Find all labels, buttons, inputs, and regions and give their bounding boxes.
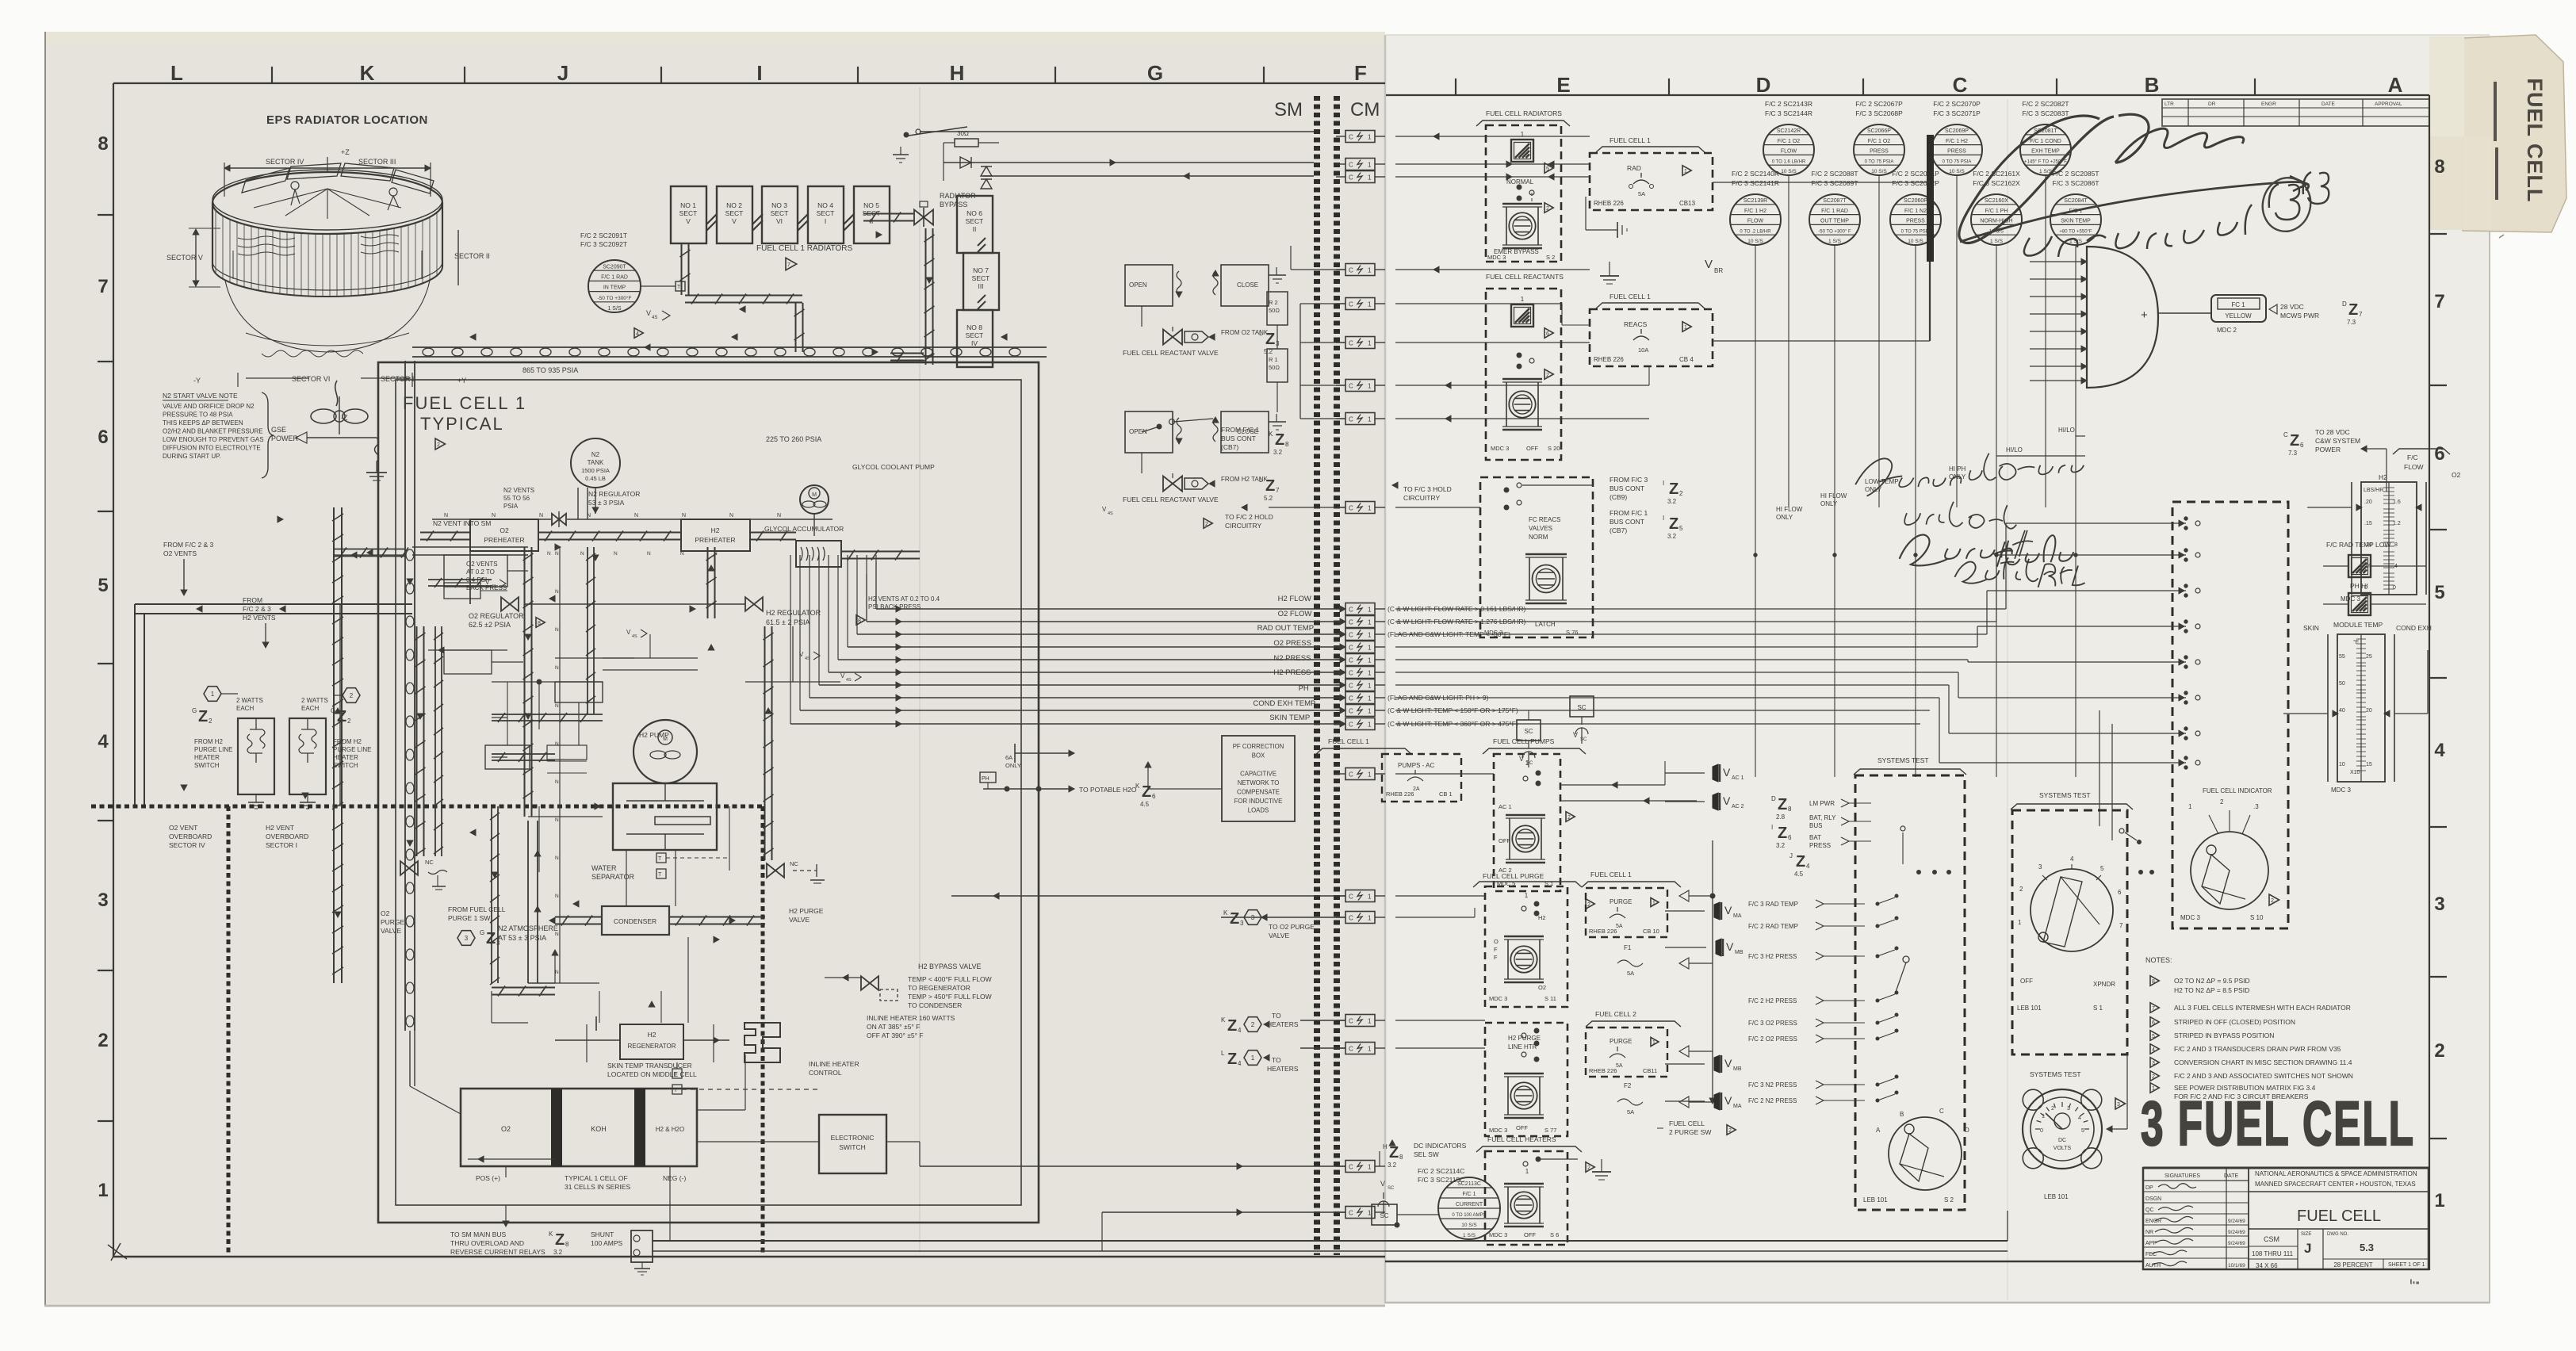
- svg-text:F/C: F/C: [2407, 454, 2418, 461]
- svg-text:(CB7): (CB7): [1221, 443, 1238, 451]
- svg-text:YELLOW: YELLOW: [2225, 312, 2252, 320]
- svg-text:OVERBOARD: OVERBOARD: [169, 832, 212, 840]
- svg-text:PF CORRECTION: PF CORRECTION: [1233, 743, 1284, 750]
- svg-text:+Z: +Z: [341, 148, 350, 156]
- svg-text:+Y: +Y: [457, 377, 466, 385]
- svg-text:R 2: R 2: [1269, 299, 1278, 306]
- svg-text:REACS: REACS: [1624, 320, 1648, 328]
- svg-text:N: N: [547, 551, 551, 557]
- svg-text:N2 VENTS: N2 VENTS: [503, 487, 534, 494]
- svg-text:TEMP < 400°F FULL FLOW: TEMP < 400°F FULL FLOW: [908, 975, 992, 983]
- svg-text:F/C RAD TEMP LOW: F/C RAD TEMP LOW: [2326, 541, 2390, 549]
- svg-text:C: C: [1349, 383, 1353, 390]
- svg-text:N: N: [555, 627, 559, 633]
- svg-text:N: N: [555, 817, 559, 823]
- svg-text:2: 2: [1587, 902, 1590, 908]
- svg-text:NO 3: NO 3: [771, 201, 787, 209]
- svg-text:F/C 1 N2: F/C 1 N2: [1904, 209, 1927, 214]
- svg-text:10/1/69: 10/1/69: [2228, 1263, 2245, 1269]
- svg-text:SC: SC: [1580, 737, 1587, 742]
- svg-text:BUS CONT: BUS CONT: [1610, 484, 1644, 492]
- svg-text:BYPASS: BYPASS: [940, 201, 967, 209]
- svg-text:S 76: S 76: [1566, 629, 1578, 636]
- svg-text:C: C: [1349, 632, 1353, 639]
- svg-text:H2 VENT: H2 VENT: [266, 824, 294, 832]
- svg-text:NORMAL: NORMAL: [1506, 178, 1534, 186]
- svg-text:RHEB 226: RHEB 226: [1594, 200, 1624, 207]
- svg-text:3: 3: [2038, 863, 2042, 871]
- svg-text:FUEL CELL: FUEL CELL: [2297, 1207, 2381, 1225]
- svg-text:9/24/69: 9/24/69: [2228, 1241, 2245, 1246]
- svg-text:7: 7: [2434, 291, 2444, 312]
- svg-text:MA: MA: [1733, 1104, 1742, 1109]
- svg-text:5A: 5A: [1638, 190, 1645, 197]
- svg-text:WATER: WATER: [591, 864, 617, 872]
- svg-text:1.6: 1.6: [2393, 499, 2401, 505]
- svg-text:1: 1: [1368, 607, 1372, 614]
- svg-text:FLOW: FLOW: [1747, 219, 1764, 224]
- svg-text:FROM F/C 2 & 3: FROM F/C 2 & 3: [163, 541, 214, 549]
- svg-text:SKIN TEMP: SKIN TEMP: [1269, 714, 1310, 722]
- svg-text:N: N: [555, 970, 559, 975]
- svg-text:NO 7: NO 7: [973, 266, 989, 274]
- svg-text:FLOW: FLOW: [2404, 463, 2424, 471]
- svg-text:1: 1: [1525, 892, 1529, 899]
- svg-text:T: T: [658, 872, 662, 878]
- svg-text:F/C 3 SC2068P: F/C 3 SC2068P: [1855, 109, 1903, 117]
- svg-text:SHEET 1 OF 1: SHEET 1 OF 1: [2388, 1262, 2425, 1268]
- svg-text:F/C 1 O2: F/C 1 O2: [1778, 139, 1801, 144]
- svg-text:7: 7: [2359, 311, 2363, 318]
- svg-text:2: 2: [1587, 1165, 1590, 1171]
- svg-text:6: 6: [2434, 443, 2444, 465]
- svg-text:CAPACITIVE: CAPACITIVE: [1240, 771, 1277, 778]
- svg-text:2 WATTS: 2 WATTS: [301, 697, 328, 704]
- svg-text:865 TO 935 PSIA: 865 TO 935 PSIA: [522, 366, 578, 374]
- svg-text:INLINE HEATER: INLINE HEATER: [809, 1060, 859, 1068]
- svg-text:MDC 3: MDC 3: [1491, 445, 1509, 452]
- svg-text:1 S/S: 1 S/S: [607, 306, 621, 312]
- svg-text:F/C 2 RAD TEMP: F/C 2 RAD TEMP: [1748, 923, 1798, 930]
- svg-text:CIRCUITRY: CIRCUITRY: [1225, 522, 1261, 530]
- svg-text:3.2: 3.2: [1776, 842, 1786, 849]
- svg-text:CONTROL: CONTROL: [809, 1069, 842, 1077]
- svg-text:4S: 4S: [652, 316, 657, 320]
- svg-text:SC2087T: SC2087T: [1823, 198, 1847, 204]
- svg-text:2: 2: [1251, 1021, 1255, 1028]
- svg-text:F/C 3 SC2086T: F/C 3 SC2086T: [2052, 179, 2099, 187]
- svg-text:8: 8: [2152, 979, 2155, 985]
- svg-text:C: C: [1349, 1210, 1353, 1217]
- svg-text:4: 4: [2070, 855, 2074, 863]
- svg-text:MB: MB: [1735, 950, 1743, 955]
- svg-text:6: 6: [2300, 442, 2304, 449]
- svg-text:V: V: [732, 217, 737, 225]
- svg-text:5A: 5A: [1627, 1108, 1634, 1116]
- svg-text:FROM F/C 1: FROM F/C 1: [1221, 426, 1259, 434]
- svg-text:C: C: [1349, 416, 1353, 423]
- svg-text:F/C 2 SC2143R: F/C 2 SC2143R: [1765, 100, 1812, 108]
- svg-text:COND EXH: COND EXH: [2396, 624, 2432, 632]
- svg-text:V: V: [840, 672, 845, 679]
- svg-text:ON AT 385° ±5° F: ON AT 385° ±5° F: [867, 1023, 920, 1031]
- svg-text:D: D: [1756, 73, 1771, 97]
- svg-text:DSGN: DSGN: [2145, 1196, 2161, 1202]
- svg-text:C: C: [1349, 619, 1353, 626]
- svg-text:VALVE AND ORIFICE DROP N2: VALVE AND ORIFICE DROP N2: [163, 403, 255, 410]
- svg-text:SC: SC: [1380, 1212, 1388, 1219]
- svg-text:Z: Z: [1669, 480, 1678, 498]
- svg-text:F/C 2 SC2070P: F/C 2 SC2070P: [1933, 100, 1981, 108]
- svg-text:SYSTEMS TEST: SYSTEMS TEST: [2030, 1070, 2081, 1078]
- svg-text:SC2066P: SC2066P: [1867, 128, 1891, 134]
- svg-text:PRESS: PRESS: [1947, 149, 1966, 155]
- svg-text:SYSTEMS TEST: SYSTEMS TEST: [2039, 791, 2091, 799]
- svg-text:CONDENSER: CONDENSER: [614, 917, 656, 925]
- svg-text:NOTES:: NOTES:: [2145, 956, 2172, 964]
- svg-text:F/C 2 SC2085T: F/C 2 SC2085T: [2052, 170, 2099, 178]
- svg-text:Z: Z: [1230, 910, 1239, 928]
- svg-text:1: 1: [98, 1180, 108, 1201]
- svg-text:MDC 2: MDC 2: [2217, 327, 2237, 334]
- svg-text:108 THRU 111: 108 THRU 111: [2252, 1250, 2294, 1257]
- svg-text:POWER: POWER: [2315, 446, 2341, 454]
- svg-text:(CB9): (CB9): [1610, 493, 1627, 501]
- svg-text:0.45 LB: 0.45 LB: [585, 475, 606, 482]
- svg-text:V: V: [1380, 1180, 1385, 1188]
- svg-text:F/C 2 SC2114C: F/C 2 SC2114C: [1418, 1167, 1464, 1175]
- svg-text:10 S/S: 10 S/S: [1908, 239, 1923, 244]
- svg-text:BAT: BAT: [1809, 834, 1821, 841]
- svg-text:4.5: 4.5: [1140, 801, 1150, 808]
- svg-text:SEL SW: SEL SW: [1414, 1150, 1439, 1158]
- svg-text:4.5: 4.5: [1794, 871, 1804, 878]
- svg-text:K: K: [360, 61, 375, 85]
- svg-text:N: N: [614, 551, 618, 557]
- svg-text:FLOW: FLOW: [1781, 149, 1797, 155]
- svg-text:HI FLOW: HI FLOW: [1776, 506, 1803, 513]
- svg-text:F/C 2 SC2140R: F/C 2 SC2140R: [1732, 170, 1779, 178]
- svg-text:APP: APP: [2145, 1241, 2157, 1246]
- svg-text:PREHEATER: PREHEATER: [695, 536, 735, 544]
- svg-text:FUEL CELL PUMPS: FUEL CELL PUMPS: [1493, 737, 1555, 745]
- svg-text:6: 6: [2152, 1020, 2155, 1026]
- svg-text:STRIPED IN OFF (CLOSED) POSITI: STRIPED IN OFF (CLOSED) POSITION: [2174, 1018, 2295, 1026]
- svg-text:F/C 1 H2: F/C 1 H2: [1744, 209, 1766, 214]
- svg-text:10 S/S: 10 S/S: [1781, 169, 1797, 174]
- svg-text:C: C: [1349, 340, 1353, 347]
- svg-text:S 2: S 2: [1546, 254, 1555, 261]
- svg-text:L: L: [1259, 476, 1263, 484]
- svg-text:FUEL CELL: FUEL CELL: [2523, 78, 2547, 203]
- svg-text:POWER: POWER: [271, 434, 299, 442]
- svg-text:50Ω: 50Ω: [1269, 364, 1280, 371]
- svg-text:H2: H2: [1538, 914, 1546, 921]
- svg-text:SECTOR IV: SECTOR IV: [266, 158, 304, 166]
- svg-text:4: 4: [1806, 863, 1810, 870]
- svg-text:SIZE: SIZE: [2301, 1232, 2311, 1237]
- svg-text:6: 6: [2118, 889, 2122, 896]
- svg-text:1: 1: [1368, 267, 1372, 274]
- svg-text:EACH: EACH: [236, 705, 254, 712]
- svg-text:H2 BYPASS VALVE: H2 BYPASS VALVE: [918, 963, 982, 970]
- svg-text:COMPENSATE: COMPENSATE: [1237, 789, 1280, 796]
- svg-text:SIGNATURES: SIGNATURES: [2165, 1173, 2200, 1179]
- svg-text:ELECTRONIC: ELECTRONIC: [831, 1134, 875, 1142]
- svg-text:XPNDR: XPNDR: [2093, 981, 2115, 988]
- svg-text:.3: .3: [2253, 803, 2259, 810]
- svg-text:0 TO .2 LB/HR: 0 TO .2 LB/HR: [1740, 229, 1771, 234]
- svg-text:1: 1: [1368, 416, 1372, 423]
- svg-text:F/C 2 H2 PRESS: F/C 2 H2 PRESS: [1748, 997, 1797, 1005]
- svg-text:4: 4: [2434, 740, 2445, 761]
- svg-text:7.3: 7.3: [2288, 450, 2298, 457]
- svg-text:4: 4: [2078, 1116, 2081, 1121]
- svg-text:II: II: [973, 225, 977, 233]
- svg-text:SC: SC: [1526, 761, 1533, 766]
- svg-text:2: 2: [347, 718, 351, 725]
- svg-text:O2: O2: [381, 909, 390, 917]
- svg-text:C: C: [1349, 1046, 1353, 1053]
- svg-text:VALVES: VALVES: [1529, 525, 1552, 532]
- svg-text:SKIN TEMP: SKIN TEMP: [2061, 219, 2091, 224]
- svg-text:SC2060P: SC2060P: [1904, 198, 1927, 204]
- svg-text:FUEL CELL PURGE: FUEL CELL PURGE: [1483, 872, 1544, 880]
- svg-text:TYPICAL: TYPICAL: [420, 414, 504, 434]
- svg-text:N: N: [555, 741, 559, 747]
- svg-text:28 VDC: 28 VDC: [2280, 303, 2304, 311]
- svg-text:T: T: [677, 285, 681, 290]
- svg-text:NO 4: NO 4: [817, 201, 833, 209]
- svg-text:V: V: [1724, 1094, 1732, 1107]
- svg-text:MODULE TEMP: MODULE TEMP: [2333, 621, 2383, 629]
- svg-text:Z: Z: [1142, 783, 1151, 801]
- svg-text:5.3: 5.3: [2360, 1242, 2374, 1253]
- svg-text:SECT: SECT: [771, 209, 789, 217]
- svg-text:F/C 3 SC2083T: F/C 3 SC2083T: [2022, 109, 2069, 117]
- svg-text:3: 3: [465, 935, 469, 942]
- svg-text:TO: TO: [1272, 1056, 1281, 1064]
- svg-text:V: V: [1705, 258, 1713, 271]
- svg-text:O2: O2: [501, 1125, 511, 1133]
- svg-text:GLYCOL ACCUMULATOR: GLYCOL ACCUMULATOR: [764, 525, 844, 533]
- svg-text:1: 1: [1368, 670, 1372, 677]
- svg-text:TO O2 PURGE: TO O2 PURGE: [1269, 923, 1315, 931]
- svg-text:6: 6: [1546, 331, 1549, 337]
- svg-text:RAD: RAD: [1627, 164, 1641, 172]
- svg-text:62.5 ±2 PSIA: 62.5 ±2 PSIA: [469, 621, 511, 629]
- svg-text:8: 8: [538, 621, 541, 626]
- svg-text:PSIA: PSIA: [503, 503, 519, 510]
- svg-text:°F: °F: [2353, 639, 2359, 645]
- svg-text:IN TEMP: IN TEMP: [603, 285, 626, 291]
- svg-text:PURGE 1 SW: PURGE 1 SW: [448, 914, 490, 922]
- svg-text:J: J: [557, 61, 568, 85]
- svg-text:O2: O2: [2452, 471, 2461, 479]
- svg-text:1: 1: [1368, 657, 1372, 664]
- svg-text:N2: N2: [591, 451, 600, 458]
- svg-text:DIFFUSION INTO ELECTROLYTE: DIFFUSION INTO ELECTROLYTE: [163, 445, 261, 452]
- svg-text:KOH: KOH: [591, 1125, 607, 1133]
- svg-text:SECTOR IV: SECTOR IV: [169, 841, 205, 849]
- svg-text:REVERSE CURRENT RELAYS: REVERSE CURRENT RELAYS: [450, 1248, 545, 1256]
- svg-text:O2: O2: [500, 526, 509, 534]
- svg-text:HI PH: HI PH: [1949, 465, 1966, 473]
- svg-text:C: C: [1349, 695, 1353, 702]
- svg-text:1: 1: [1368, 162, 1372, 169]
- svg-text:PRESS: PRESS: [1809, 842, 1831, 849]
- svg-text:C: C: [1349, 1164, 1353, 1171]
- svg-text:8: 8: [2434, 156, 2444, 178]
- svg-text:1: 1: [1368, 301, 1372, 308]
- svg-text:OVERBOARD: OVERBOARD: [266, 832, 308, 840]
- svg-text:0: 0: [2040, 1128, 2043, 1134]
- svg-text:N: N: [539, 513, 543, 519]
- svg-text:0 TO 1.6 LB/HR: 0 TO 1.6 LB/HR: [1772, 159, 1806, 164]
- svg-text:Z: Z: [1669, 515, 1678, 533]
- svg-text:N: N: [555, 855, 559, 861]
- svg-text:SYSTEMS TEST: SYSTEMS TEST: [1877, 756, 1929, 764]
- svg-text:SECTOR III: SECTOR III: [358, 158, 396, 166]
- svg-text:TEMP > 450°F FULL FLOW: TEMP > 450°F FULL FLOW: [908, 993, 992, 1001]
- svg-text:8: 8: [1285, 441, 1289, 448]
- svg-text:LATCH: LATCH: [1535, 621, 1556, 628]
- svg-text:N: N: [444, 513, 448, 519]
- svg-text:OFF: OFF: [2020, 978, 2033, 985]
- svg-text:NC: NC: [425, 859, 434, 866]
- svg-text:C: C: [1349, 683, 1353, 690]
- svg-text:SC2139R: SC2139R: [1743, 198, 1767, 204]
- svg-text:N: N: [634, 513, 638, 519]
- svg-text:Z: Z: [2290, 432, 2299, 450]
- svg-text:5: 5: [2100, 865, 2104, 872]
- svg-text:4: 4: [636, 331, 639, 337]
- svg-text:O2/H2 AND BLANKET PRESSURE: O2/H2 AND BLANKET PRESSURE: [163, 428, 263, 435]
- svg-text:4S: 4S: [632, 634, 637, 639]
- svg-text:S 2: S 2: [1944, 1196, 1954, 1204]
- svg-text:40: 40: [2339, 708, 2345, 714]
- svg-text:PRESSURE TO 48 PSIA: PRESSURE TO 48 PSIA: [163, 411, 233, 419]
- svg-text:C: C: [1953, 73, 1968, 97]
- svg-text:SECT: SECT: [966, 331, 984, 339]
- svg-text:Z: Z: [1227, 1017, 1237, 1035]
- svg-text:REGENERATOR: REGENERATOR: [627, 1043, 676, 1050]
- svg-text:PH HI: PH HI: [2350, 582, 2368, 590]
- svg-text:O2 TO N2 ΔP = 9.5 PSID: O2 TO N2 ΔP = 9.5 PSID: [2174, 977, 2250, 985]
- svg-text:9/24/69: 9/24/69: [2228, 1219, 2245, 1224]
- svg-text:FUEL CELL INDICATOR: FUEL CELL INDICATOR: [2203, 787, 2272, 794]
- svg-text:2: 2: [98, 1030, 108, 1051]
- svg-text:O2 FLOW: O2 FLOW: [1278, 610, 1312, 618]
- svg-text:5: 5: [98, 575, 108, 596]
- svg-text:Z: Z: [1227, 1051, 1237, 1068]
- svg-text:HEATERS: HEATERS: [1267, 1065, 1299, 1073]
- svg-text:AC 2: AC 2: [1732, 804, 1744, 809]
- svg-text:O: O: [1494, 938, 1499, 945]
- svg-text:30Ω: 30Ω: [957, 130, 969, 137]
- svg-text:SC2160X: SC2160X: [1985, 198, 2008, 204]
- svg-text:225 TO 260 PSIA: 225 TO 260 PSIA: [766, 435, 821, 443]
- svg-text:S 11: S 11: [1544, 995, 1556, 1002]
- svg-text:MA: MA: [1733, 913, 1742, 919]
- svg-text:THIS KEEPS ΔP BETWEEN: THIS KEEPS ΔP BETWEEN: [163, 419, 243, 427]
- svg-text:OFF: OFF: [1516, 1124, 1528, 1131]
- svg-text:20: 20: [2366, 708, 2372, 714]
- svg-text:2: 2: [1679, 490, 1683, 497]
- svg-text:HEATER: HEATER: [194, 754, 220, 761]
- svg-text:1: 1: [1368, 383, 1372, 390]
- svg-text:1: 1: [1368, 1164, 1372, 1171]
- svg-text:SECTOR II: SECTOR II: [454, 252, 490, 260]
- svg-text:O2 VENT: O2 VENT: [169, 824, 197, 832]
- svg-text:Z: Z: [1778, 825, 1787, 842]
- svg-text:K: K: [1135, 783, 1140, 790]
- svg-text:10 S/S: 10 S/S: [1871, 169, 1887, 174]
- svg-text:2: 2: [2271, 898, 2274, 904]
- svg-text:L: L: [170, 61, 183, 85]
- svg-text:SC2069P: SC2069P: [1945, 128, 1969, 134]
- svg-text:7.3: 7.3: [2347, 319, 2356, 326]
- svg-text:MDC 3: MDC 3: [1484, 629, 1502, 636]
- svg-text:N: N: [492, 513, 496, 519]
- svg-text:HEATER: HEATER: [333, 754, 358, 761]
- svg-text:V: V: [646, 309, 651, 317]
- svg-text:50: 50: [2339, 681, 2345, 687]
- svg-text:34 X 66: 34 X 66: [2256, 1262, 2278, 1269]
- svg-text:FUEL CELL 2: FUEL CELL 2: [1595, 1010, 1636, 1018]
- svg-text:LOADS: LOADS: [1248, 807, 1269, 814]
- svg-text:POS (+): POS (+): [476, 1174, 500, 1182]
- svg-text:K: K: [1223, 909, 1228, 917]
- svg-text:N: N: [714, 551, 718, 557]
- svg-text:2: 2: [2051, 1106, 2054, 1112]
- svg-text:SHUNT: SHUNT: [591, 1230, 614, 1238]
- svg-text:61.5 ± 2 PSIA: 61.5 ± 2 PSIA: [766, 618, 810, 626]
- svg-text:L: L: [1259, 330, 1263, 337]
- svg-text:LBS/HR: LBS/HR: [2364, 488, 2383, 493]
- svg-text:NO 6: NO 6: [966, 209, 982, 217]
- svg-text:CM: CM: [1350, 99, 1380, 121]
- svg-text:FROM F/C 3: FROM F/C 3: [1610, 476, 1648, 484]
- svg-text:F/C 2 AND 3 AND ASSOCIATED SWI: F/C 2 AND 3 AND ASSOCIATED SWITCHES NOT …: [2174, 1072, 2353, 1080]
- svg-text:Z: Z: [1778, 796, 1787, 813]
- svg-text:-Y: -Y: [193, 377, 201, 385]
- svg-text:3: 3: [1240, 920, 1244, 927]
- svg-text:S 10: S 10: [2250, 914, 2264, 921]
- svg-text:BUS: BUS: [1809, 822, 1822, 829]
- svg-text:0: 0: [2393, 585, 2396, 591]
- svg-text:2: 2: [1546, 206, 1549, 212]
- svg-text:Z: Z: [2348, 301, 2358, 319]
- svg-text:1: 1: [1368, 721, 1372, 729]
- svg-text:V: V: [1726, 940, 1734, 953]
- svg-text:6: 6: [1788, 834, 1792, 841]
- svg-text:▌▖▄: ▌▖▄: [2410, 1279, 2419, 1284]
- svg-text:H2 VENTS AT 0.2 TO 0.4: H2 VENTS AT 0.2 TO 0.4: [868, 595, 940, 603]
- svg-text:K: K: [1221, 1016, 1226, 1024]
- svg-text:BUS CONT: BUS CONT: [1610, 518, 1644, 526]
- svg-text:RHEB 226: RHEB 226: [1589, 1067, 1617, 1074]
- svg-text:V: V: [1519, 755, 1524, 763]
- svg-text:VALVE: VALVE: [1269, 932, 1289, 940]
- svg-text:H2 PUMP: H2 PUMP: [639, 731, 669, 739]
- svg-text:AUTH: AUTH: [2145, 1263, 2161, 1269]
- svg-text:NORM: NORM: [1529, 534, 1548, 541]
- svg-text:8: 8: [1399, 1154, 1403, 1161]
- svg-text:SECT: SECT: [972, 274, 990, 282]
- svg-text:MCWS PWR: MCWS PWR: [2280, 312, 2319, 320]
- svg-text:N: N: [555, 665, 559, 671]
